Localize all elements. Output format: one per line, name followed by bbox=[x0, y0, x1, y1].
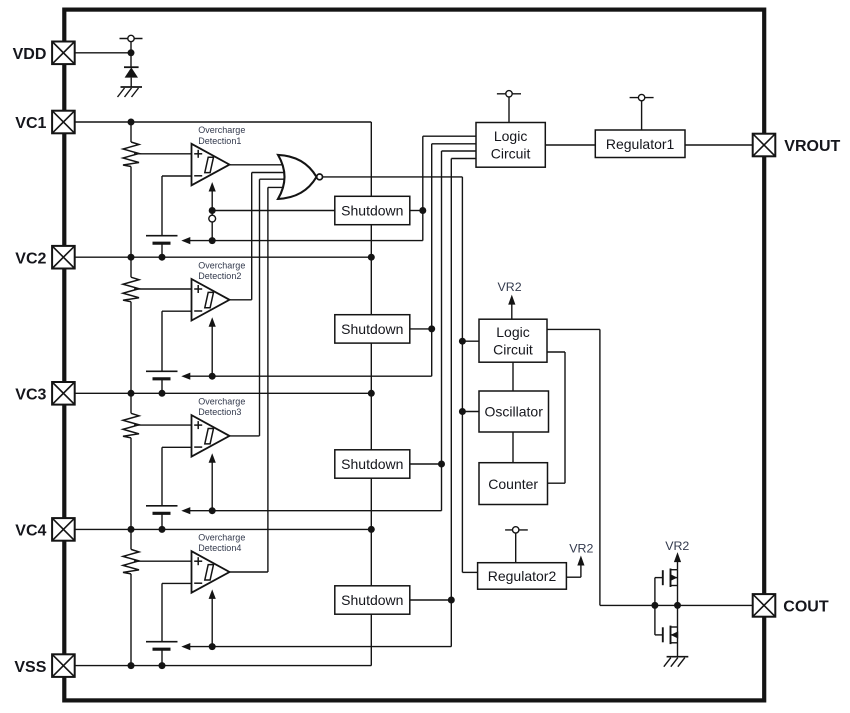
terminal circle above VDD node bbox=[120, 38, 143, 40]
wire Regulator1 to VROUT bbox=[685, 144, 752, 146]
svg-text:VR2: VR2 bbox=[498, 280, 522, 294]
node return-line junction 2 bbox=[209, 373, 216, 380]
node comparator1 enable tap bbox=[209, 207, 216, 214]
node VSS-divider bbox=[128, 662, 135, 669]
diode D1 (zener to ground) bbox=[130, 53, 132, 67]
wire tap to Shutdown1 input bbox=[212, 210, 335, 212]
node Shutdown4 output bbox=[448, 597, 455, 604]
wire shutdown3 return with left arrow bbox=[181, 507, 190, 514]
svg-text:VROUT: VROUT bbox=[784, 138, 840, 155]
wire comparator2 minus input bbox=[162, 310, 192, 312]
pin VSS bbox=[52, 654, 75, 677]
node NOR column to Oscillator bbox=[459, 408, 466, 415]
svg-text:Oscillator: Oscillator bbox=[485, 404, 544, 420]
wire comparator1 enable vertical with up arrow bbox=[211, 190, 213, 241]
block Counter bbox=[479, 463, 548, 505]
capacitor/battery reference B1 bbox=[146, 235, 178, 237]
current source bubble on enable line bbox=[209, 215, 216, 222]
svg-text:Detection4: Detection4 bbox=[198, 543, 241, 553]
node cap1-VC rail bbox=[159, 254, 166, 261]
wire Shutdown1 output column to logic circuit bbox=[422, 136, 424, 240]
terminal circle above Regulator2 bbox=[515, 533, 517, 563]
ground (VDD clamp) bbox=[121, 86, 143, 88]
svg-text:Overcharge: Overcharge bbox=[198, 260, 245, 270]
wire comparator1 output to NOR input1 bbox=[230, 164, 286, 166]
wire comparator4 minus input bbox=[162, 582, 192, 584]
node gate-drive bbox=[651, 602, 658, 609]
svg-text:VR2: VR2 bbox=[569, 541, 593, 555]
svg-text:VC4: VC4 bbox=[15, 523, 46, 540]
node chain-VC4 bbox=[368, 526, 375, 533]
wire comparator4 output to NOR input4 bbox=[230, 571, 268, 573]
pin VC2 bbox=[52, 246, 75, 269]
wire comparator3 output to NOR input3 bbox=[230, 435, 260, 437]
node VC2-divider bbox=[128, 254, 135, 261]
resistor R4 divider bbox=[130, 529, 132, 549]
wire Logic Circuit 2 to Counter feedback loop bbox=[547, 351, 565, 353]
svg-text:Overcharge: Overcharge bbox=[198, 533, 245, 543]
wire VDD pin to diode node bbox=[75, 52, 131, 54]
terminal circle above Logic Circuit U2 bbox=[508, 97, 510, 123]
wire divider tap to comparator1 plus input bbox=[134, 153, 192, 155]
wire Logic Circuit to Regulator1 bbox=[545, 144, 595, 146]
wire shutdown2 return with left arrow bbox=[181, 373, 190, 380]
wire Shutdown4 output stub bbox=[410, 599, 452, 601]
svg-text:Detection3: Detection3 bbox=[198, 407, 241, 417]
wire comparator1 minus input bbox=[162, 175, 192, 177]
node VC1-divider bbox=[128, 119, 135, 126]
svg-text:VC3: VC3 bbox=[15, 387, 46, 404]
svg-text:Overcharge: Overcharge bbox=[198, 397, 245, 407]
wire sense chain vertical bbox=[370, 122, 372, 666]
wire PMOS source to VR2 arrow bbox=[677, 562, 679, 570]
pin VC3 bbox=[52, 382, 75, 405]
node VC3-divider bbox=[128, 390, 135, 397]
svg-text:Circuit: Circuit bbox=[493, 342, 533, 358]
wire stub to Logic Circuit 2 bbox=[462, 340, 479, 342]
wire NOR output down column bbox=[461, 177, 463, 573]
node cap3-VC rail bbox=[159, 526, 166, 533]
capacitor/battery reference B2 bbox=[146, 370, 178, 372]
svg-text:Counter: Counter bbox=[488, 476, 538, 492]
block Shutdown2 bbox=[335, 315, 410, 343]
resistor R1 divider bbox=[130, 122, 132, 142]
wire Shutdown3 output column to logic circuit bbox=[441, 151, 443, 511]
wire stub to Oscillator bbox=[462, 411, 479, 413]
pin VROUT bbox=[753, 134, 776, 157]
node return-line junction 1 bbox=[209, 237, 216, 244]
wire VSS rail bbox=[75, 665, 371, 667]
node cap4-VC rail bbox=[159, 662, 166, 669]
transistor Q1 PMOS bbox=[662, 570, 664, 585]
wire MOSFET channel column bbox=[677, 570, 679, 657]
node chain-VC3 bbox=[368, 390, 375, 397]
op-amp comparator Overcharge Detection4 bbox=[192, 551, 230, 593]
wire VC1 rail bbox=[75, 121, 371, 123]
svg-text:VDD: VDD bbox=[13, 46, 47, 63]
wire Shutdown4 output column to logic circuit bbox=[450, 159, 452, 647]
op-amp comparator Overcharge Detection1 bbox=[192, 144, 230, 186]
wire divider tap to comparator4 plus input bbox=[134, 560, 192, 562]
svg-text:VSS: VSS bbox=[14, 659, 46, 676]
wire VC4 rail bbox=[75, 528, 371, 530]
node Shutdown1 output bbox=[419, 207, 426, 214]
wire comparator3 enable vertical with up arrow bbox=[211, 461, 213, 510]
ground below NMOS bbox=[667, 656, 689, 658]
wire Shutdown1 output stub bbox=[410, 210, 423, 212]
block Shutdown3 bbox=[335, 450, 410, 478]
wire comparator4 enable vertical with up arrow bbox=[211, 597, 213, 646]
resistor R3 divider bbox=[130, 393, 132, 413]
node NOR column to Logic Circuit 2 bbox=[459, 338, 466, 345]
wire comparator2 output to NOR input2 bbox=[230, 299, 252, 301]
wire shutdown4 return with left arrow bbox=[181, 643, 190, 650]
wire divider tap to comparator3 plus input bbox=[134, 424, 192, 426]
wire Oscillator to Counter bbox=[512, 432, 514, 463]
node Shutdown2 output bbox=[428, 325, 435, 332]
node Shutdown3 output bbox=[438, 461, 445, 468]
svg-text:COUT: COUT bbox=[783, 599, 829, 616]
transistor Q2 NMOS bbox=[662, 627, 664, 642]
node cap2-VC rail bbox=[159, 390, 166, 397]
capacitor/battery reference B4 bbox=[146, 641, 178, 643]
block Logic Circuit U2 bbox=[476, 123, 545, 168]
svg-text:Shutdown: Shutdown bbox=[341, 456, 403, 472]
node COUT drain bbox=[674, 602, 681, 609]
wire stub to Regulator2 bbox=[462, 571, 477, 573]
wire Shutdown3 output stub bbox=[410, 463, 442, 465]
capacitor/battery reference B3 bbox=[146, 505, 178, 507]
wire Logic Circuit 2 to COUT driver bbox=[547, 328, 600, 330]
svg-text:VC1: VC1 bbox=[15, 115, 46, 132]
wire shutdown1 return with left arrow bbox=[181, 237, 190, 244]
svg-text:Shutdown: Shutdown bbox=[341, 321, 403, 337]
wire Regulator2 VR2 output arrow bbox=[566, 576, 581, 578]
pin COUT bbox=[753, 594, 776, 617]
wire Shutdown2 output stub bbox=[410, 328, 432, 330]
4-input NOR gate U1 bbox=[278, 155, 317, 199]
node chain-VC2 bbox=[368, 254, 375, 261]
svg-text:Detection1: Detection1 bbox=[198, 136, 241, 146]
block Regulator2 bbox=[478, 563, 567, 590]
pin VDD bbox=[52, 42, 75, 65]
block Regulator1 bbox=[595, 130, 685, 158]
svg-text:Overcharge: Overcharge bbox=[198, 125, 245, 135]
op-amp comparator Overcharge Detection2 bbox=[192, 279, 230, 321]
block Logic Circuit 2 bbox=[479, 319, 547, 362]
node VC4-divider bbox=[128, 526, 135, 533]
resistor R2 divider bbox=[130, 257, 132, 277]
svg-text:Circuit: Circuit bbox=[491, 146, 531, 162]
svg-text:VR2: VR2 bbox=[665, 539, 689, 553]
wire comparator2 enable vertical with up arrow bbox=[211, 325, 213, 376]
svg-text:Shutdown: Shutdown bbox=[341, 592, 403, 608]
wire VC3 rail bbox=[75, 392, 371, 394]
wire comparator3 minus input bbox=[162, 446, 192, 448]
svg-text:Regulator1: Regulator1 bbox=[606, 136, 675, 152]
svg-text:Shutdown: Shutdown bbox=[341, 203, 403, 219]
svg-text:Logic: Logic bbox=[496, 324, 529, 340]
node return-line junction 3 bbox=[209, 507, 216, 514]
block Shutdown4 bbox=[335, 586, 410, 614]
wire VR2 up arrow from Logic Circuit 2 bbox=[511, 303, 513, 319]
svg-text:VC2: VC2 bbox=[15, 250, 46, 267]
wire gate column bbox=[654, 578, 656, 635]
block Oscillator bbox=[479, 391, 549, 432]
wire VC2 rail bbox=[75, 256, 371, 258]
wire divider tap to comparator2 plus input bbox=[134, 288, 192, 290]
svg-text:Detection2: Detection2 bbox=[198, 271, 241, 281]
svg-text:Regulator2: Regulator2 bbox=[488, 568, 557, 584]
wire Shutdown2 output column to logic circuit bbox=[431, 144, 433, 376]
terminal circle above Regulator1 bbox=[641, 101, 643, 130]
block Shutdown1 bbox=[335, 196, 410, 224]
wire Logic Circuit 2 to Oscillator bbox=[512, 362, 514, 391]
wire NOR output bbox=[323, 176, 462, 178]
pin VC1 bbox=[52, 111, 75, 134]
node VDD-diode junction bbox=[128, 49, 135, 56]
pin VC4 bbox=[52, 518, 75, 541]
svg-text:Logic: Logic bbox=[494, 128, 527, 144]
op-amp comparator Overcharge Detection3 bbox=[192, 415, 230, 457]
IC boundary bbox=[64, 10, 764, 701]
node return-line junction 4 bbox=[209, 643, 216, 650]
